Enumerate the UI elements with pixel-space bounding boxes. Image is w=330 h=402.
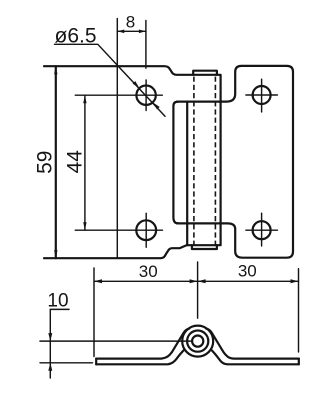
svg-text:30: 30 [238,262,257,281]
svg-text:30: 30 [139,262,158,281]
svg-text:10: 10 [47,291,68,312]
svg-text:44: 44 [63,150,86,174]
svg-text:59: 59 [34,151,57,174]
svg-text:ø6.5: ø6.5 [55,25,97,48]
svg-text:8: 8 [126,13,135,32]
